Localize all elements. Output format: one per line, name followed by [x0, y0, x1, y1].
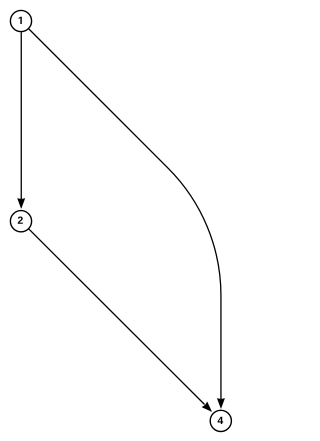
node 4 circle	[210, 410, 231, 431]
node 2 circle	[10, 211, 31, 232]
wire edge 2->4 shaft	[29, 229, 205, 404]
wire edge 2->4 arrowhead	[202, 402, 212, 412]
node 1 label "1"	[19, 17, 22, 24]
wire edge 1->4 arrowhead	[217, 398, 224, 408]
wire edge 1->4 shaft (curved)	[29, 29, 221, 399]
wire edge 1->2 arrowhead	[18, 198, 25, 208]
node 1 circle	[10, 10, 31, 31]
node 2 label "2"	[18, 216, 23, 223]
node 4 label "4"	[218, 417, 224, 424]
wire edge 1->2 shaft	[20, 32, 22, 199]
